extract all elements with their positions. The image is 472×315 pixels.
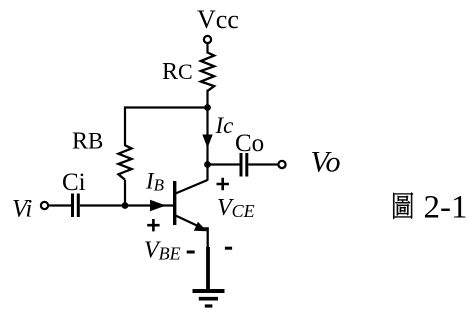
- svg-text:2-1: 2-1: [424, 190, 468, 226]
- ground: [193, 289, 225, 293]
- wire RC to node A: [206, 90, 208, 108]
- capacitor Ci: [71, 194, 74, 218]
- resistor RB: [118, 145, 131, 180]
- transistor Q1 collector lead: [176, 180, 208, 194]
- svg-text:RB: RB: [72, 129, 103, 155]
- wire Vi to Ci: [48, 204, 71, 206]
- wire emitter corner: [204, 228, 208, 248]
- svg-text:Vi: Vi: [12, 196, 32, 223]
- node C: [204, 161, 211, 168]
- terminal Vo: [278, 161, 285, 168]
- svg-text:Ci: Ci: [62, 169, 86, 196]
- svg-text:Co: Co: [235, 130, 264, 157]
- terminal Vcc: [204, 36, 211, 43]
- wire RB to node B: [124, 180, 126, 206]
- terminal Vi: [41, 202, 48, 209]
- resistor RC: [201, 53, 214, 92]
- node A: [204, 104, 211, 111]
- plus VBE: [147, 219, 159, 231]
- wire Vcc to RC: [206, 43, 208, 53]
- transistor Q1 emitter arrow: [194, 222, 207, 232]
- svg-text:Vo: Vo: [311, 146, 341, 179]
- wire node A to RB top: [125, 108, 208, 147]
- wire Ci to base: [80, 204, 174, 206]
- caption glyph 圖: [393, 192, 413, 219]
- wire emitter to ground: [206, 247, 210, 290]
- node B: [122, 202, 129, 209]
- capacitor Co: [240, 153, 243, 177]
- transistor Q1 emitter lead: [176, 216, 207, 231]
- arrow IB: [150, 200, 166, 212]
- minus VBE: [187, 251, 195, 254]
- minus VCE: [225, 247, 232, 250]
- svg-text:RC: RC: [162, 59, 193, 85]
- wire Co to Vo: [248, 163, 278, 165]
- plus VCE: [217, 178, 229, 190]
- svg-text:Vcc: Vcc: [197, 5, 239, 34]
- wire node C to Co: [208, 163, 240, 165]
- arrow Ic: [202, 135, 212, 149]
- transistor Q1 base bar: [173, 181, 176, 225]
- wire collector vertical: [206, 108, 208, 181]
- svg-text:Ic: Ic: [215, 113, 234, 138]
